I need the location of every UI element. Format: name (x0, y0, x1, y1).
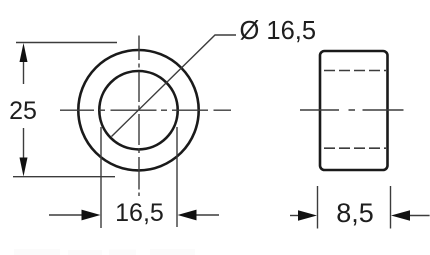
extension line right (dim 8,5) (390, 186, 392, 229)
hidden line top (bore, side view) (324, 70, 386, 72)
svg-text:8,5: 8,5 (336, 198, 374, 228)
extension line top (dim 25) (16, 42, 117, 44)
front view inner circle (bore Ø16,5) (99, 71, 177, 149)
front view outer circle (Ø25 body) (78, 50, 198, 170)
svg-text:16,5: 16,5 (115, 199, 164, 227)
extension line left (dim 16,5) (100, 127, 102, 228)
faint cropped watermark at bottom edge (14, 249, 195, 255)
svg-text:25: 25 (9, 97, 37, 125)
dimension line 25 upper segment with up arrowhead (20, 43, 28, 84)
dimension arrow right (8,5) pointing left (391, 210, 430, 221)
leader line to Ø 16,5 label (112, 35, 237, 137)
centerline (side view) (300, 109, 404, 111)
hidden line bottom (bore, side view) (324, 147, 386, 149)
dimension arrow left (8,5) pointing right (290, 210, 317, 221)
side view body outline (320, 51, 388, 170)
horizontal centerline (front view) (60, 109, 231, 111)
extension line left (dim 8,5) (317, 186, 319, 229)
vertical centerline (front view) (138, 36, 140, 197)
extension line right (dim 16,5) (176, 127, 178, 227)
dimension arrow left (16,5) pointing right (49, 210, 101, 221)
dimension line 25 lower segment with down arrowhead (20, 128, 28, 177)
dimension arrow right (16,5) pointing left (178, 210, 220, 221)
extension line bottom (dim 25) (13, 176, 115, 178)
svg-text:Ø 16,5: Ø 16,5 (240, 17, 317, 45)
